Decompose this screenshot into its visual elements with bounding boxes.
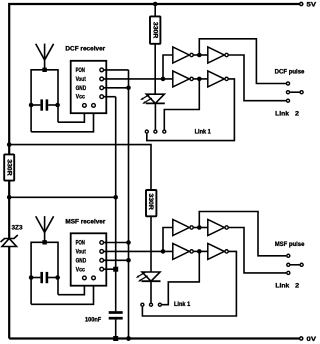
wire U1 GND to ground column	[104, 87, 129, 89]
wire MSF antenna loop	[31, 242, 93, 304]
pin ant2 U1	[92, 104, 96, 108]
antenna A2 MSF	[36, 216, 54, 244]
zener diode D1 3Z3	[1, 226, 24, 247]
wire U1 Vout to inverter inputs	[104, 78, 173, 80]
wire ground column	[128, 70, 130, 339]
node GND join DCF	[126, 86, 131, 91]
node 3V3/Vcc column junction	[113, 195, 118, 200]
node 3V3 cap / 0V rail	[113, 336, 118, 341]
svg-text:Link: Link	[275, 111, 290, 117]
svg-text:MSF receiver: MSF receiver	[65, 219, 106, 225]
antenna A1 DCF	[36, 44, 54, 72]
inverter U2B	[208, 47, 225, 63]
inverter U2A	[173, 47, 190, 63]
svg-text:330R: 330R	[151, 22, 157, 39]
svg-text:Link: Link	[275, 284, 290, 290]
pin PON U3	[100, 241, 104, 245]
inverter U2D	[208, 71, 225, 87]
connector Link 1 DCF	[145, 129, 211, 135]
node DCF row2 mid	[197, 77, 202, 82]
wire U3 Vcc to 3V3 column	[104, 268, 116, 270]
LED D3 MSF indicator	[136, 272, 161, 282]
svg-text:PON: PON	[76, 241, 85, 247]
module U1 DCF receiver	[65, 46, 106, 113]
wire U1 PON to ground column	[104, 69, 129, 71]
node Vcc join MSF	[113, 267, 118, 272]
node 3V3 left junction	[7, 195, 12, 200]
module U3 MSF receiver	[65, 219, 106, 285]
capacitor C2 MSF tuning	[29, 272, 60, 283]
node GND join MSF	[126, 258, 131, 263]
wire U2A out to U2B in	[194, 54, 208, 56]
LED D2 DCF indicator	[140, 94, 165, 104]
wire U2B output to link2 pin	[229, 55, 287, 101]
svg-text:MSF pulse: MSF pulse	[275, 242, 305, 248]
terminal 5V	[300, 2, 303, 5]
connector Link 1 MSF	[141, 302, 191, 308]
node 5V/left-rail junction	[7, 142, 12, 147]
pin ant1 U1	[83, 104, 87, 108]
svg-text:DCF pulse: DCF pulse	[275, 69, 305, 75]
terminal 0V	[300, 337, 303, 340]
inverter U2E	[173, 220, 190, 236]
svg-text:GND: GND	[76, 86, 87, 92]
pin Vcc U3	[100, 267, 104, 271]
wire 3V3 rail to receivers Vcc	[9, 196, 116, 198]
wire DCF row1 mid to DCF pulse	[199, 39, 286, 84]
node DCF row1 mid	[197, 53, 202, 58]
pin GND U3	[100, 258, 104, 262]
wire DCF antenna loop	[31, 70, 93, 132]
node Vout split MSF	[161, 249, 166, 254]
capacitor C1 DCF tuning	[29, 99, 60, 110]
wire U4A out to U4B in	[194, 250, 208, 252]
wire U1 Vcc to 3V3 column	[104, 96, 116, 98]
wire MSF row1 input feed	[163, 228, 173, 252]
pin GND U1	[100, 86, 104, 90]
node top rail / R1	[153, 2, 158, 7]
node PON join MSF	[126, 240, 131, 245]
terminal MSF pulse	[275, 242, 305, 257]
wire U2D output to link1 pin	[147, 79, 235, 141]
svg-text:5V: 5V	[307, 2, 317, 8]
svg-text:330R: 330R	[5, 159, 11, 176]
pin ant2 U3	[92, 276, 96, 280]
svg-text:330R: 330R	[147, 193, 153, 210]
wire U3 PON to ground column	[104, 242, 129, 244]
resistor R2 330R (left rail)	[4, 154, 14, 180]
wire DCF LED cathode to link	[154, 103, 156, 129]
node Vout split	[161, 77, 166, 82]
inverter U4A	[173, 243, 190, 259]
wire 0V bottom rail	[9, 337, 299, 339]
svg-text:Vout: Vout	[76, 77, 86, 83]
pin ant1 U3	[83, 276, 87, 280]
svg-text:3Z3: 3Z3	[12, 226, 24, 232]
node MSF row1 mid	[197, 225, 202, 230]
svg-text:GND: GND	[76, 258, 87, 264]
pin PON U1	[100, 68, 104, 72]
wire U3 Vout to inverter inputs	[104, 250, 173, 252]
wire 5V feed to MSF LED resistor	[9, 145, 151, 190]
svg-text:Link 1: Link 1	[195, 129, 212, 135]
pin Vout U3	[100, 250, 104, 254]
svg-text:Link 1: Link 1	[174, 302, 191, 308]
svg-text:Vcc: Vcc	[76, 95, 86, 101]
wire MSF row1 mid to MSF pulse	[199, 212, 286, 256]
svg-text:Vcc: Vcc	[76, 267, 86, 273]
terminal DCF pulse	[275, 69, 305, 85]
svg-text:0V: 0V	[307, 337, 317, 343]
svg-text:DCF receiver: DCF receiver	[65, 46, 106, 52]
wire 3V3 column	[115, 97, 117, 312]
resistor R3 330R (mid, MSF LED)	[146, 190, 156, 272]
pin Vout U1	[100, 77, 104, 81]
inverter U2C	[173, 71, 190, 87]
connector Link 2 DCF	[275, 91, 303, 118]
capacitor C3 100nF	[85, 313, 123, 339]
wire U2E out to U2F in	[194, 227, 208, 229]
wire DCF row2 mid to link1 pin	[164, 79, 199, 130]
inverter U4B	[208, 243, 225, 259]
wire MSF LED cathode to link	[150, 281, 152, 303]
connector Link 2 MSF	[275, 263, 303, 289]
svg-text:PON: PON	[76, 68, 85, 74]
wire U4B output to link1 pin MSF	[142, 251, 236, 316]
resistor R1 330R (top, DCF LED)	[150, 4, 160, 94]
pin Vcc U1	[100, 95, 104, 99]
inverter U2F	[208, 220, 225, 236]
wire MSF row2 mid to link1 pin	[162, 251, 199, 304]
wire U2C out to U2D in	[194, 78, 208, 80]
node ground column / 0V rail	[126, 336, 131, 341]
svg-text:Vout: Vout	[76, 250, 86, 256]
wire U3 GND to ground column	[104, 259, 129, 261]
wire row1 input feed	[163, 55, 173, 79]
node MSF row2 mid	[197, 249, 202, 254]
svg-text:100nF: 100nF	[85, 318, 102, 324]
wire U2F output to link2 pin MSF	[229, 228, 287, 273]
